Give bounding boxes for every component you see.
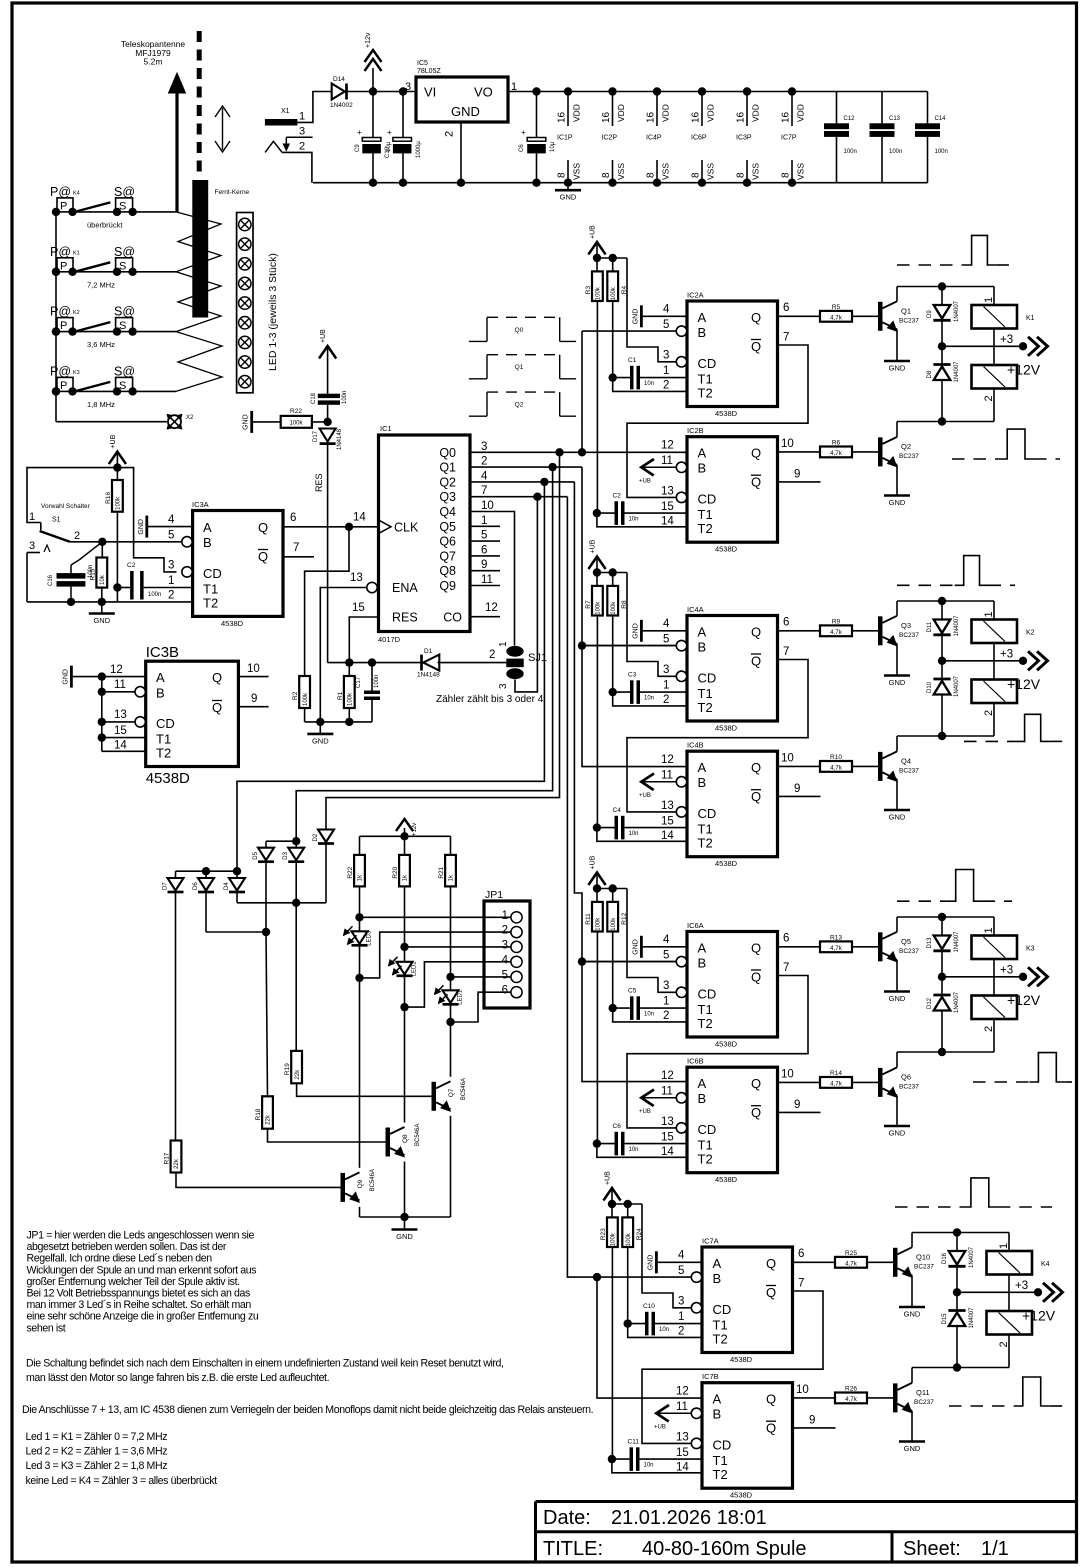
svg-text:IC7A: IC7A [702, 1237, 719, 1246]
svg-text:7: 7 [783, 646, 789, 658]
svg-text:6: 6 [783, 302, 789, 314]
svg-text:P@: P@ [50, 364, 71, 378]
svg-text:2: 2 [489, 649, 495, 661]
svg-text:7: 7 [293, 542, 299, 554]
svg-text:IC7P: IC7P [781, 135, 797, 142]
diode D1 1N4148 [417, 648, 507, 679]
svg-text:VSS: VSS [661, 163, 671, 180]
svg-text:100k: 100k [611, 1232, 617, 1246]
wire IC3B Qbar stub pin9 [238, 693, 268, 707]
wire IC6B T2 loop [597, 1144, 687, 1158]
svg-text:R25: R25 [845, 1250, 857, 1257]
waveform pulse sketch K2 A [897, 556, 1015, 586]
svg-text:3: 3 [502, 939, 508, 951]
transistor Q6 BC237 [878, 1052, 919, 1126]
svg-text:BC237: BC237 [899, 453, 919, 460]
wire IC3B Q stub pin10 [238, 663, 268, 677]
svg-text:Ferrit-Kerne: Ferrit-Kerne [215, 189, 250, 196]
svg-text:R7: R7 [585, 600, 592, 609]
svg-text:GND: GND [632, 623, 639, 639]
svg-text:VSS: VSS [572, 163, 582, 180]
svg-text:9: 9 [481, 559, 487, 571]
svg-text:12: 12 [661, 1070, 674, 1082]
svg-text:BC237: BC237 [914, 1399, 934, 1406]
monoflop IC3B 4538D [135, 644, 238, 787]
wire IC5 VO output rail [508, 87, 928, 95]
resistor R13 4,7k [820, 934, 878, 952]
svg-text:C12: C12 [844, 116, 856, 122]
waveform sketch Q0 [469, 317, 576, 341]
svg-text:A: A [698, 1076, 707, 1091]
svg-text:2: 2 [663, 380, 669, 392]
svg-text:1000µ: 1000µ [416, 141, 422, 158]
monoflop IC6B 4538D [661, 1057, 778, 1185]
svg-text:T2: T2 [713, 1332, 728, 1347]
svg-text:CD: CD [713, 1438, 732, 1453]
label 7,2 MHz [87, 280, 115, 289]
+3 supply rail K4 [953, 1280, 1063, 1302]
svg-text:7: 7 [798, 1278, 804, 1290]
wire CLK pulldown via R2 [305, 527, 349, 676]
svg-text:Q8: Q8 [439, 564, 456, 578]
svg-text:R23: R23 [600, 1228, 607, 1240]
transistor Q3 BC237 [878, 601, 919, 676]
svg-text:13: 13 [661, 800, 674, 812]
svg-text:100k: 100k [596, 286, 602, 300]
svg-text:14: 14 [661, 830, 674, 842]
svg-text:Q3: Q3 [901, 621, 911, 630]
svg-text:K4: K4 [73, 190, 80, 196]
svg-text:Vorwahl Schalter: Vorwahl Schalter [41, 503, 91, 510]
svg-text:D17: D17 [313, 430, 319, 442]
monoflop IC3A 4538D [168, 500, 283, 628]
wire rail D4 D3 D2 bottoms [237, 899, 326, 907]
svg-text:+12V: +12V [1022, 1308, 1056, 1324]
svg-text:4538D: 4538D [715, 409, 738, 418]
power pins IC7P VDD/VSS [781, 87, 806, 187]
svg-text:T2: T2 [698, 1152, 713, 1167]
svg-text:IC1: IC1 [380, 424, 392, 433]
wire IC5 GND pin2 [460, 122, 462, 183]
wire rail D5 D3 tops [266, 837, 300, 845]
wire X1 pin1 to D14 [297, 92, 332, 123]
svg-text:1k: 1k [449, 874, 455, 881]
monoflop IC4A 4538D [663, 605, 778, 733]
svg-text:15: 15 [114, 725, 127, 737]
diode D10 1N4007 [927, 661, 960, 736]
svg-text:10n: 10n [659, 1327, 669, 1333]
svg-text:CD: CD [698, 492, 717, 507]
svg-text:9: 9 [251, 693, 257, 705]
svg-text:+12v: +12v [412, 823, 418, 836]
label +12V K3 [1007, 992, 1041, 1008]
svg-text:Q: Q [751, 625, 761, 640]
svg-text:100n: 100n [374, 675, 380, 688]
svg-text:10: 10 [481, 500, 494, 512]
capacitor C14 100n bypass [915, 92, 948, 183]
svg-text:GND: GND [451, 104, 480, 119]
svg-text:BC237: BC237 [914, 1263, 934, 1270]
svg-text:CD: CD [698, 1122, 717, 1137]
svg-text:10n: 10n [644, 381, 654, 387]
transistor Q11 BC237 [893, 1368, 934, 1442]
diode D16 1N4007 [942, 1233, 975, 1293]
svg-text:16: 16 [781, 111, 792, 123]
+UB arrow at IC7B pin11 [654, 1405, 691, 1431]
relay K3 coil 1 [972, 917, 1035, 977]
resistor R15 10k [89, 542, 107, 602]
svg-text:4,7k: 4,7k [845, 1260, 858, 1267]
wire IC2B Qbar stub [778, 469, 821, 482]
ground symbol at IC1P VSS [555, 183, 581, 202]
wire collector rail Q10 [912, 1228, 1009, 1236]
svg-text:3: 3 [29, 540, 35, 552]
LED strip (terminal block) [237, 213, 253, 393]
svg-text:Q9: Q9 [357, 1179, 364, 1188]
svg-text:C6: C6 [519, 144, 525, 152]
svg-text:16: 16 [736, 111, 747, 123]
wire IC2A T2 loop [613, 378, 687, 392]
svg-text:D2: D2 [313, 833, 319, 841]
svg-text:T1: T1 [156, 732, 171, 747]
label +12V K1 [1007, 362, 1041, 378]
svg-text:IC2B: IC2B [687, 426, 704, 435]
svg-text:10: 10 [796, 1384, 809, 1396]
diode D8 1N4007 [927, 346, 960, 421]
svg-text:1: 1 [299, 111, 305, 123]
svg-text:6: 6 [290, 512, 296, 524]
svg-text:A: A [698, 625, 707, 640]
wire +UB jog to IC3A CD pin3 [117, 468, 176, 572]
capacitor C2 10n timing IC3A [117, 562, 192, 600]
svg-text:10k: 10k [100, 574, 106, 585]
svg-text:CD: CD [713, 1302, 732, 1317]
wire interlock IC7A Qbar to IC7B CD [642, 1278, 823, 1444]
power pins IC1P VDD/VSS [557, 87, 582, 187]
svg-text:GND: GND [904, 1310, 921, 1319]
svg-text:D7: D7 [163, 882, 169, 890]
LED strip lamp 1 [239, 218, 251, 230]
capacitor C13 100n bypass [870, 92, 903, 183]
wire bus Q1 to diode matrix [296, 467, 552, 841]
svg-text:11: 11 [661, 1086, 673, 1098]
counter IC1 4017D [350, 424, 470, 644]
svg-text:BC237: BC237 [899, 1083, 919, 1090]
wire left feed rail [52, 212, 168, 422]
svg-text:100k: 100k [596, 601, 602, 615]
note text JP1 usage [27, 1229, 259, 1334]
ground symbol below R15 [89, 602, 115, 625]
svg-text:10n: 10n [644, 696, 654, 702]
+3 supply rail K1 [938, 334, 1048, 356]
svg-text:4,7k: 4,7k [845, 1396, 858, 1403]
LED1 [435, 973, 464, 1026]
capacitor C2 10n [593, 493, 687, 525]
+UB supply arrow group K2 [588, 539, 605, 572]
svg-text:1N4007: 1N4007 [969, 1307, 975, 1329]
svg-text:B: B [156, 686, 165, 701]
svg-text:S@: S@ [114, 185, 135, 199]
relay contact S@K4 [113, 185, 137, 216]
svg-text:14: 14 [661, 1146, 674, 1158]
relay contact P@K3 [50, 364, 110, 395]
svg-text:A: A [698, 310, 707, 325]
wire JP1 pin2 [360, 932, 512, 978]
antenna connector X2 [167, 414, 194, 429]
wire group4 B-input vertical [593, 1273, 702, 1398]
svg-text:78L05Z: 78L05Z [417, 68, 441, 75]
svg-text:GND: GND [312, 736, 329, 745]
svg-text:1N4002: 1N4002 [330, 102, 353, 109]
svg-text:100k: 100k [611, 601, 617, 615]
svg-text:VSS: VSS [796, 163, 806, 180]
svg-text:GND: GND [560, 193, 577, 202]
LED strip lamp 8 [239, 356, 251, 368]
svg-text:überbrückt: überbrückt [87, 220, 123, 229]
svg-text:1: 1 [998, 1243, 1010, 1249]
svg-text:LED2: LED2 [412, 961, 418, 977]
wire collector rail Q2 [897, 417, 994, 425]
svg-text:K2: K2 [73, 310, 80, 316]
ground symbol Q2 [884, 496, 910, 508]
svg-text:T1: T1 [698, 686, 713, 701]
label 1,8 MHz [87, 400, 115, 409]
svg-text:R14: R14 [830, 1070, 842, 1077]
resistor R9 4,7k [820, 618, 878, 636]
svg-text:4: 4 [663, 304, 670, 316]
svg-text:Q11: Q11 [916, 1388, 930, 1397]
+UB supply arrow above C18 [319, 329, 336, 362]
svg-text:12: 12 [676, 1386, 689, 1398]
resistor R25 4,7k [835, 1250, 893, 1268]
svg-text:+12V: +12V [1007, 676, 1041, 692]
svg-text:13: 13 [661, 1116, 674, 1128]
svg-text:T1: T1 [698, 507, 713, 522]
transistor Q5 BC237 [878, 917, 919, 992]
wire IC6B Q output [778, 1069, 821, 1083]
wire Q4 to jumper SJ1 pad1 [470, 512, 515, 646]
svg-text:5: 5 [663, 319, 669, 331]
wire collector rail Q3 [897, 597, 994, 605]
wire IC4B T2 loop [597, 828, 687, 842]
svg-text:12: 12 [110, 664, 123, 676]
note text LED frequency table [26, 1431, 218, 1487]
svg-text:BC237: BC237 [899, 767, 919, 774]
wire collector rail Q1 [897, 282, 994, 290]
svg-text:R20: R20 [392, 866, 399, 878]
svg-text:C4: C4 [613, 807, 622, 814]
wire +UB to IC6A CD pin3 [627, 889, 676, 993]
wire IC4A Q output [778, 617, 821, 631]
svg-text:+3: +3 [1000, 334, 1013, 346]
wire X1 pin3 stub [283, 137, 312, 150]
svg-text:8: 8 [736, 172, 747, 178]
LED2 [389, 943, 418, 1012]
wire +UB to IC4A CD pin3 [627, 573, 676, 677]
svg-text:Regelfall. Ich ordne diese Led: Regelfall. Ich ordne diese Led´s neben d… [27, 1253, 213, 1265]
svg-text:4,7k: 4,7k [830, 314, 843, 321]
capacitor C12 100n bypass [824, 92, 857, 183]
note text reset behaviour [26, 1357, 504, 1384]
wire bus Q0 to diode matrix [326, 452, 560, 829]
wire IC1 ENA to ground [320, 588, 367, 722]
svg-text:A: A [698, 760, 707, 775]
svg-text:R18: R18 [255, 1108, 262, 1120]
+3 supply rail K2 [938, 649, 1048, 671]
svg-text:Q: Q [766, 1421, 776, 1436]
svg-text:10n: 10n [629, 831, 639, 837]
svg-text:3: 3 [663, 980, 669, 992]
svg-text:BC237: BC237 [899, 632, 919, 639]
+UB arrow at IC6B pin11 [639, 1090, 676, 1116]
wire trigger to IC6A pin5 [582, 961, 676, 963]
svg-text:R10: R10 [830, 754, 842, 761]
svg-text:4538D: 4538D [715, 545, 738, 554]
svg-text:R22: R22 [347, 866, 354, 878]
svg-text:100n: 100n [889, 149, 902, 155]
wire IC3A Qbar stub [283, 542, 314, 557]
transistor Q1 BC237 [878, 287, 919, 362]
svg-text:2: 2 [74, 530, 80, 542]
capacitor C10 electrolytic [385, 92, 422, 183]
svg-text:Q: Q [766, 1285, 776, 1300]
svg-text:+UB: +UB [639, 793, 651, 799]
svg-text:16: 16 [691, 111, 702, 123]
svg-text:10n: 10n [644, 1012, 654, 1018]
svg-text:P@: P@ [50, 305, 71, 319]
svg-text:Date:: Date: [543, 1507, 591, 1529]
power pins IC2P VDD/VSS [601, 87, 626, 187]
svg-text:+UB: +UB [605, 1171, 612, 1185]
svg-text:GND: GND [243, 414, 250, 430]
svg-text:VSS: VSS [751, 163, 761, 180]
wire S@K2 to coil tap [73, 331, 176, 333]
waveform pulse sketch K3 B [973, 1053, 1072, 1082]
relay K4 coil 1 [987, 1233, 1050, 1293]
relay contact P@K2 [50, 305, 110, 336]
capacitor C5 10n [609, 988, 688, 1020]
svg-text:10n: 10n [644, 1463, 654, 1469]
wire IC3A T2 loop [113, 583, 121, 602]
connector X1 power jack [265, 108, 305, 153]
svg-text:D5: D5 [253, 851, 259, 859]
svg-text:P: P [60, 380, 67, 392]
svg-text:R2: R2 [292, 691, 299, 700]
svg-text:IC3A: IC3A [192, 500, 209, 509]
relay K1 coil 2 [972, 346, 1018, 421]
svg-text:13: 13 [114, 709, 127, 721]
resistor R8 100k [607, 573, 628, 693]
svg-text:Q: Q [751, 339, 761, 354]
svg-text:Q2: Q2 [439, 475, 456, 489]
svg-text:Q4: Q4 [439, 505, 456, 519]
svg-text:BC237: BC237 [899, 317, 919, 324]
svg-text:1N4007: 1N4007 [954, 615, 960, 637]
monoflop IC2B 4538D [661, 426, 778, 554]
svg-text:1: 1 [983, 611, 995, 617]
svg-text:R5: R5 [832, 304, 841, 311]
title block sheet [903, 1538, 1009, 1560]
svg-text:GND: GND [889, 498, 906, 507]
LED3 [344, 913, 373, 982]
svg-text:10µ: 10µ [550, 141, 556, 152]
LED strip lamp 4 [239, 277, 251, 289]
wire Q3 row [470, 493, 567, 501]
svg-text:16: 16 [557, 111, 568, 123]
relay contact P@K1 [50, 245, 110, 276]
svg-text:eine sehr schöne Anzeige die i: eine sehr schöne Anzeige die in großer E… [27, 1311, 259, 1323]
wire IC3B input tie rail [98, 672, 106, 751]
svg-text:Q5: Q5 [901, 937, 911, 946]
connector JP1 [484, 889, 530, 1008]
svg-text:+UB: +UB [590, 539, 597, 553]
svg-text:Q4: Q4 [901, 756, 911, 765]
svg-text:15: 15 [676, 1447, 689, 1459]
svg-text:D14: D14 [333, 76, 345, 83]
svg-text:1N4007: 1N4007 [954, 931, 960, 953]
resistor R22 1k LED [347, 855, 365, 931]
svg-text:Q3: Q3 [439, 490, 456, 504]
svg-text:2: 2 [444, 131, 456, 137]
waveform pulse sketch K1 A [897, 235, 1015, 265]
svg-text:14: 14 [114, 740, 127, 752]
svg-text:1N4007: 1N4007 [954, 991, 960, 1013]
relay contact S@K3 [113, 364, 137, 395]
svg-text:C3: C3 [628, 672, 637, 679]
svg-text:R13: R13 [830, 934, 842, 941]
svg-text:+: + [521, 128, 526, 137]
svg-text:13: 13 [661, 486, 674, 498]
svg-text:13: 13 [350, 572, 363, 584]
svg-text:R3: R3 [585, 286, 592, 295]
svg-text:B: B [698, 640, 707, 655]
svg-text:9: 9 [809, 1415, 815, 1427]
svg-text:GND: GND [396, 1232, 413, 1241]
wire Q2 row [470, 478, 574, 486]
svg-text:T1: T1 [713, 1453, 728, 1468]
svg-text:2: 2 [663, 694, 669, 706]
ground bar IC2A pin4 [632, 305, 687, 327]
svg-text:14: 14 [676, 1462, 689, 1474]
svg-text:Q6: Q6 [439, 535, 456, 549]
diode D17 1N4148 [313, 428, 343, 662]
wire IC4B Qbar stub [778, 783, 821, 796]
svg-text:T1: T1 [203, 582, 218, 597]
svg-text:10n: 10n [629, 1147, 639, 1153]
+UB arrow at IC4B pin11 [639, 774, 676, 800]
svg-text:IC5: IC5 [417, 60, 428, 67]
+12V supply arrow [365, 32, 382, 91]
svg-text:2: 2 [168, 590, 174, 602]
svg-text:VDD: VDD [796, 104, 806, 122]
svg-text:R26: R26 [845, 1385, 857, 1392]
svg-text:RES: RES [314, 473, 324, 492]
wire S1 pin2 to IC3A B [70, 538, 182, 546]
label +12V K4 [1022, 1308, 1056, 1324]
ground rail under reset network [305, 718, 372, 726]
svg-text:4017D: 4017D [378, 635, 401, 644]
svg-text:B: B [713, 1271, 722, 1286]
resistor R4 100k [607, 258, 628, 378]
wire IC7B T2 loop [612, 1459, 702, 1473]
svg-text:Q5: Q5 [439, 520, 456, 534]
wire interlock IC4A Qbar to IC4B CD [627, 646, 808, 812]
svg-text:+UB: +UB [590, 225, 597, 239]
svg-text:T2: T2 [698, 521, 713, 536]
svg-text:CD: CD [698, 356, 717, 371]
svg-text:5: 5 [168, 530, 174, 542]
svg-text:IC3P: IC3P [736, 135, 752, 142]
